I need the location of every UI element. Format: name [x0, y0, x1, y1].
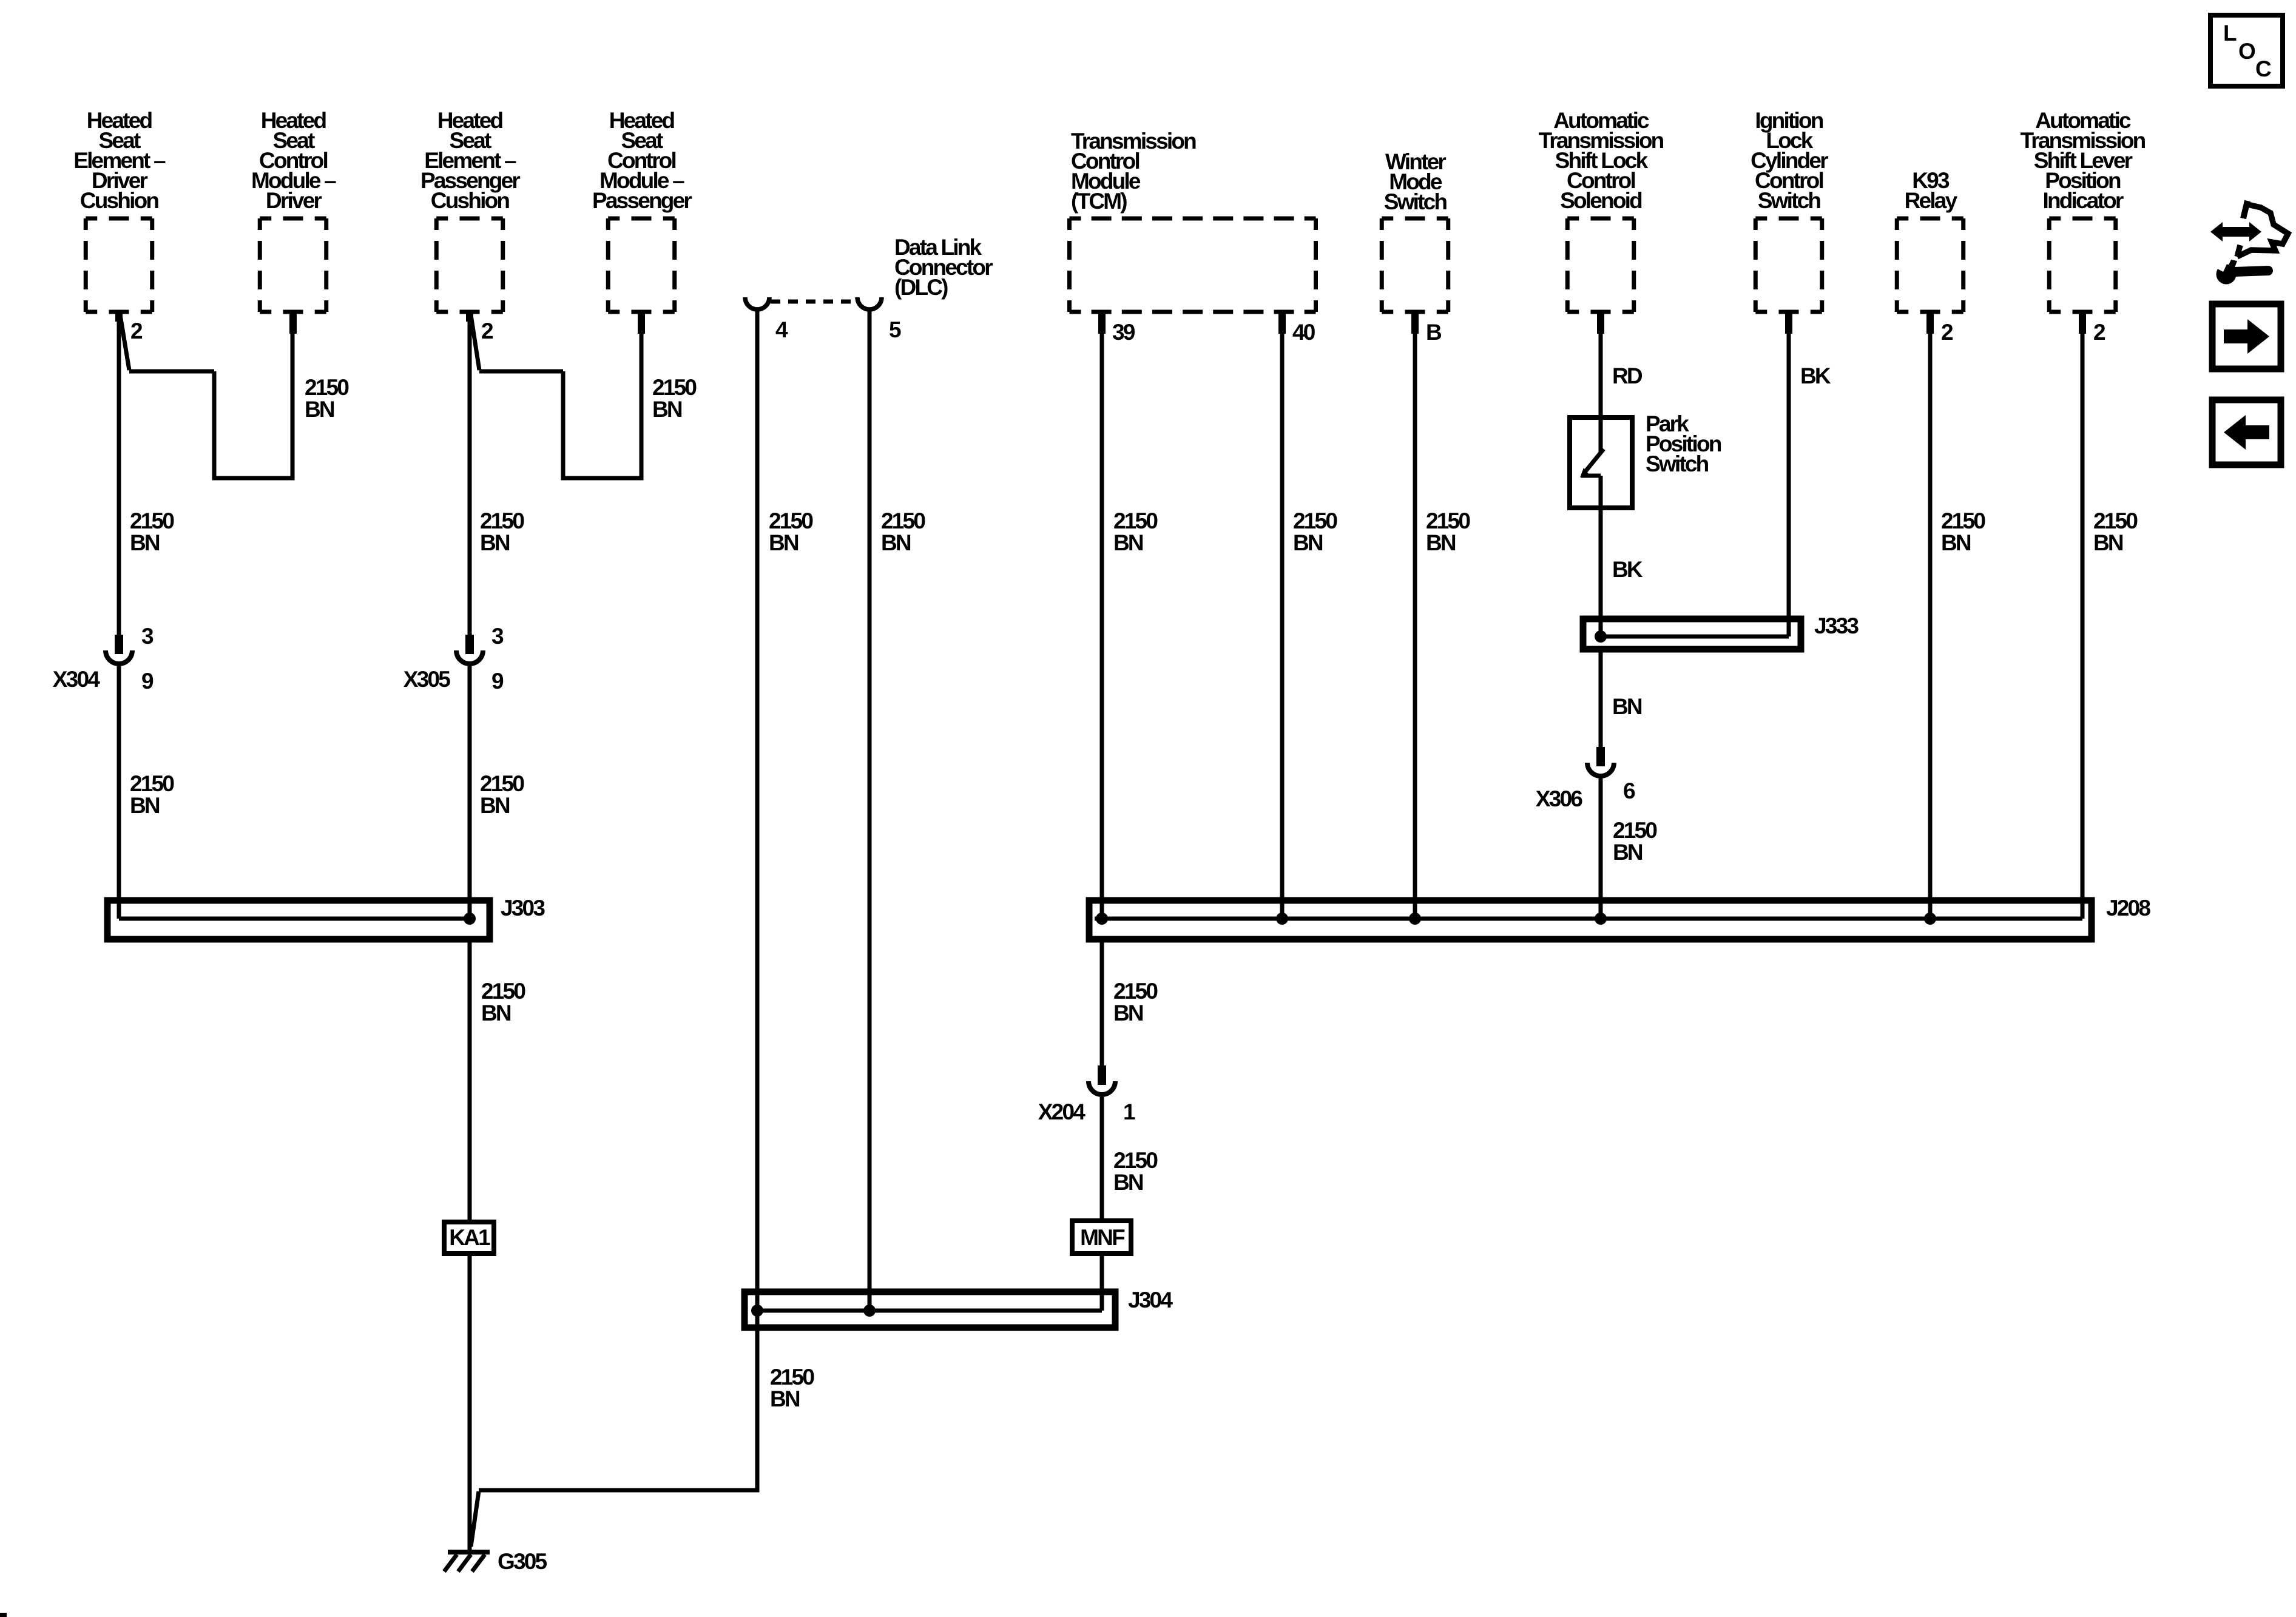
wire BN: J333 down to X306	[1599, 649, 1603, 747]
label: Park Position Switch	[1646, 411, 1721, 476]
svg-text:2150: 2150	[480, 508, 524, 533]
wire 2150 BN: TCM pin 39 down to splice J208	[1100, 312, 1104, 919]
pin 3 label (X305)	[491, 624, 504, 649]
svg-text:BN: BN	[305, 397, 334, 422]
svg-text:X306: X306	[1536, 786, 1582, 811]
svg-text:2150: 2150	[652, 375, 697, 400]
junction dot J208 at Winter Mode Switch wire	[1409, 913, 1421, 925]
bus wire inside J208	[1095, 917, 2082, 921]
relay box KA1	[444, 1222, 494, 1254]
svg-text:Solenoid: Solenoid	[1560, 188, 1642, 213]
wire 2150 BN: DLC pin 4 down to splice J304	[755, 309, 760, 1311]
svg-text:J208: J208	[2106, 896, 2150, 920]
connector: Data Link Connector (DLC) cavity 4	[745, 297, 769, 309]
svg-text:2150: 2150	[480, 771, 524, 796]
wire label 2150 BN (passenger element, upper)	[480, 508, 524, 555]
svg-text:BN: BN	[1426, 530, 1456, 555]
junction dot on J303 at X305 wire	[464, 913, 476, 925]
svg-text:J333: J333	[1814, 613, 1859, 638]
wire 2150 BN: X305 down through J303	[468, 666, 472, 919]
svg-text:MNF: MNF	[1080, 1225, 1125, 1250]
svg-text:J304: J304	[1128, 1288, 1173, 1312]
wire label 2150 BN (driver element, lower)	[130, 771, 174, 818]
svg-text:2150: 2150	[1941, 508, 1985, 533]
wire: branch from passenger element pin 2 (slant)	[471, 315, 479, 370]
svg-text:BN: BN	[769, 530, 799, 555]
connector X306 inline	[1587, 747, 1614, 776]
wire 2150 BN: Shift Lever Position Indicator down to J208	[2081, 312, 2085, 919]
wire label 2150 BN (passenger control module)	[652, 375, 697, 422]
junction dot J304 at DLC5 wire	[863, 1305, 876, 1317]
pin 4 label (DLC)	[775, 317, 788, 342]
pin 40 label (TCM)	[1292, 320, 1315, 345]
svg-text:2150: 2150	[481, 979, 525, 1004]
wire label 2150 BN (DLC pin 5, upper)	[881, 508, 925, 555]
wire 2150 BN: X306 down to J208	[1599, 778, 1603, 919]
svg-text:9: 9	[491, 669, 504, 694]
svg-text:BN: BN	[480, 530, 510, 555]
component box: Ignition Lock Cylinder Control Switch	[1755, 218, 1822, 312]
pin B stub (Winter Mode Switch)	[1411, 312, 1419, 334]
ground G305 symbol	[444, 1550, 490, 1571]
pin stub (Ignition Lock Cylinder Control Switch)	[1785, 312, 1792, 334]
svg-text:3: 3	[141, 624, 154, 649]
svg-text:2150: 2150	[770, 1365, 814, 1389]
junction dot J208 at solenoid chain wire	[1595, 913, 1607, 925]
svg-text:X204: X204	[1038, 1099, 1086, 1124]
wire BK: ignition switch down to J333	[1787, 312, 1791, 636]
wire label 2150 BN (K93)	[1941, 508, 1985, 555]
svg-text:Passenger: Passenger	[592, 188, 692, 213]
svg-text:Switch: Switch	[1646, 451, 1709, 476]
svg-text:BN: BN	[652, 397, 682, 422]
wire 2150 BN: X304 down to splice J303	[117, 666, 121, 919]
label: Heated Seat Control Module - Passenger	[592, 108, 692, 213]
svg-text:3: 3	[491, 624, 504, 649]
icon: forward arrow box	[2212, 304, 2281, 369]
svg-text:BN: BN	[1293, 530, 1323, 555]
wire 2150 BN: driver control module down to branch	[291, 312, 295, 481]
wire label 2150 BN (below J208)	[1113, 979, 1158, 1025]
svg-text:(TCM): (TCM)	[1071, 189, 1127, 214]
svg-text:2: 2	[481, 319, 493, 343]
svg-text:2: 2	[2093, 320, 2105, 345]
wire label 2150 BN (TCM 40)	[1293, 508, 1337, 555]
component box: Transmission Control Module (TCM)	[1070, 218, 1316, 312]
svg-text:L: L	[2223, 21, 2237, 46]
wire label 2150 BN (TCM 39, upper)	[1113, 508, 1158, 555]
wire: vertical segment x=353 driver branch	[212, 371, 217, 478]
component box: relay K93	[1897, 218, 1963, 312]
splice pack J303	[107, 900, 490, 939]
svg-text:C: C	[2255, 56, 2271, 81]
wire RD: solenoid down to Park Position Switch	[1599, 312, 1603, 417]
label: Ignition Lock Cylinder Control Switch	[1751, 108, 1828, 213]
svg-text:BN: BN	[480, 793, 510, 818]
svg-text:BN: BN	[1113, 1001, 1143, 1025]
svg-text:BN: BN	[1113, 1170, 1143, 1195]
svg-text:6: 6	[1623, 778, 1635, 803]
wire 2150 BN: TCM pin 40 down to splice J208	[1280, 312, 1285, 919]
svg-text:BN: BN	[1113, 530, 1143, 555]
svg-text:2150: 2150	[1293, 508, 1337, 533]
svg-text:2150: 2150	[1113, 1148, 1158, 1173]
pin 40 stub (TCM)	[1278, 312, 1286, 334]
label: Winter Mode Switch	[1384, 149, 1447, 214]
svg-text:2150: 2150	[2093, 508, 2138, 533]
wire BK: park switch lower contact down through box	[1599, 476, 1603, 636]
pin 39 stub (TCM)	[1098, 312, 1106, 334]
wire label BK (ignition switch)	[1800, 363, 1831, 388]
svg-text:BN: BN	[881, 530, 911, 555]
wire: driver element pin 2 down to X304	[117, 312, 121, 636]
label MNF	[1080, 1225, 1125, 1250]
wire label 2150 BN (driver element, upper)	[130, 508, 174, 555]
pin 1 label (X204)	[1123, 1099, 1135, 1124]
svg-text:BN: BN	[1613, 840, 1643, 865]
pin 9 label (X305)	[491, 669, 504, 694]
label KA1	[449, 1225, 490, 1250]
label: Data Link Connector (DLC)	[894, 235, 993, 300]
pin stub (Shift Lock Control Solenoid)	[1597, 312, 1604, 334]
pin 9 label (X304)	[141, 669, 154, 694]
pin 2 label (Shift Lever Position Indicator)	[2093, 320, 2105, 345]
svg-text:X305: X305	[403, 667, 450, 692]
svg-text:BN: BN	[130, 793, 160, 818]
wire: slant segment joining ground point	[471, 1491, 479, 1547]
svg-text:39: 39	[1112, 320, 1135, 345]
page corner mark	[0, 1613, 7, 1617]
label: K93 Relay	[1905, 168, 1958, 213]
component box: Heated Seat Element - Driver Cushion	[86, 218, 152, 312]
wire label 2150 BN (driver control module)	[305, 375, 349, 422]
junction dot J208 at TCM 39 wire	[1096, 913, 1108, 925]
wire: KA1 down to ground G305	[468, 1254, 472, 1551]
svg-text:2: 2	[130, 319, 143, 343]
icon: adjustment symbol (wrench)	[2214, 260, 2268, 285]
pin 5 label (DLC)	[889, 317, 901, 342]
pin 2 stub (K93 relay)	[1926, 312, 1934, 334]
label: Heated Seat Element - Passenger Cushion	[420, 108, 520, 213]
wire 2150 BN: Winter Mode Switch down to J208	[1413, 312, 1417, 919]
svg-text:B: B	[1426, 320, 1442, 345]
bus wire inside J333	[1601, 635, 1789, 639]
bus wire inside J304	[757, 1309, 1102, 1313]
svg-text:BN: BN	[1612, 694, 1642, 719]
junction dot J208 at TCM 40 wire	[1276, 913, 1288, 925]
svg-text:G305: G305	[498, 1549, 547, 1574]
label G305	[498, 1549, 547, 1574]
svg-text:2150: 2150	[305, 375, 349, 400]
pin 2 label (Heated Seat Element - Passenger Cushion)	[481, 319, 493, 343]
svg-text:2150: 2150	[130, 508, 174, 533]
switch S1: Park Position Switch box	[1570, 417, 1632, 508]
connector label X306	[1536, 786, 1582, 811]
connector label X204	[1038, 1099, 1086, 1124]
svg-text:9: 9	[141, 669, 154, 694]
component box: Winter Mode Switch	[1382, 218, 1448, 312]
svg-text:Cushion: Cushion	[80, 188, 159, 213]
component box: Heated Seat Element - Passenger Cushion	[436, 218, 503, 312]
fuse box MNF	[1072, 1221, 1131, 1254]
svg-text:BK: BK	[1612, 557, 1643, 582]
wire: horizontal segment y=788 passenger branch	[561, 476, 642, 481]
wire: horizontal segment y=612 passenger branch	[479, 370, 563, 374]
svg-text:BN: BN	[1941, 530, 1971, 555]
legend box LOC	[2210, 15, 2283, 86]
label: Automatic Transmission Shift Lock Control Solenoid	[1539, 108, 1664, 213]
wire 2150 BN: passenger control module down to branch	[640, 312, 644, 481]
svg-text:2150: 2150	[1113, 979, 1158, 1004]
label J303	[501, 896, 545, 920]
label: Automatic Transmission Shift Lever Position Indicator	[2021, 108, 2146, 213]
wire 2150 BN: X204 down to fuse MNF	[1100, 1097, 1104, 1221]
svg-text:Switch: Switch	[1384, 189, 1447, 214]
splice pack J208	[1089, 900, 2092, 939]
splice pack J333	[1583, 619, 1801, 649]
svg-text:Cushion: Cushion	[431, 188, 510, 213]
svg-text:2150: 2150	[130, 771, 174, 796]
svg-text:Relay: Relay	[1905, 188, 1958, 213]
splice pack J304	[745, 1292, 1115, 1328]
connector label X305	[403, 667, 450, 692]
svg-text:O: O	[2238, 39, 2255, 64]
pin stub: Heated Seat Control Module - Driver	[289, 312, 297, 334]
connector X304 inline	[106, 635, 132, 664]
bus wire inside J303	[119, 917, 470, 921]
icon: back arrow box	[2212, 400, 2281, 465]
svg-text:1: 1	[1123, 1099, 1135, 1124]
connector label X304	[53, 667, 100, 692]
pin 2 stub: Heated Seat Element - Driver Cushion	[115, 312, 123, 322]
wire: passenger element pin 2 down to X305	[468, 312, 472, 636]
label J208	[2106, 896, 2150, 920]
wire label 2150 BN (DLC pin 4, upper)	[769, 508, 813, 555]
component box: Heated Seat Control Module - Passenger	[608, 218, 675, 312]
wire: horizontal segment y=788 driver branch	[212, 476, 293, 481]
svg-text:X304: X304	[53, 667, 100, 692]
label: Transmission Control Module (TCM)	[1071, 129, 1196, 214]
icon: adjustment symbol (double arrow)	[2210, 222, 2261, 241]
svg-text:2: 2	[1941, 320, 1953, 345]
pin 2 label (K93 relay)	[1941, 320, 1953, 345]
svg-text:2150: 2150	[1113, 508, 1158, 533]
svg-text:2150: 2150	[1426, 508, 1470, 533]
wire: vertical segment x=928 passenger branch	[561, 371, 566, 478]
wire label BN	[1612, 694, 1642, 719]
wire: branch from driver element pin 2 toward control module (slant)	[120, 315, 129, 370]
svg-text:RD: RD	[1612, 363, 1643, 388]
svg-text:5: 5	[889, 317, 901, 342]
switch blade inside Park Position Switch	[1580, 417, 1604, 478]
component box: Automatic Transmission Shift Lock Control Solenoid	[1567, 218, 1634, 312]
svg-text:(DLC): (DLC)	[894, 275, 948, 300]
svg-text:KA1: KA1	[449, 1225, 490, 1250]
wire 2150 BN: DLC pin 5 down to splice J304	[868, 309, 872, 1311]
svg-text:BK: BK	[1800, 363, 1831, 388]
pin 2 stub: Heated Seat Element - Passenger Cushion	[466, 312, 473, 322]
wire 2150 BN: J208 down to X204	[1100, 939, 1104, 1065]
svg-text:2150: 2150	[1613, 818, 1657, 843]
connector X204 inline	[1089, 1065, 1115, 1095]
svg-text:BN: BN	[130, 530, 160, 555]
svg-text:Switch: Switch	[1758, 188, 1821, 213]
svg-text:40: 40	[1292, 320, 1315, 345]
wire label 2150 BN (DLC pin 4, below J304)	[770, 1365, 814, 1411]
label: Heated Seat Element - Driver Cushion	[73, 108, 166, 213]
wire: dashed link between DLC cavities 4 and 5	[771, 300, 856, 304]
wire 2150 BN: K93 relay down to J208	[1928, 312, 1933, 919]
svg-text:J303: J303	[501, 896, 545, 920]
pin 2 stub (Shift Lever Position Indicator)	[2079, 312, 2086, 334]
wire label 2150 BN (solenoid chain)	[1613, 818, 1657, 865]
wire 2150 BN: J303 down to relay KA1	[468, 939, 472, 1222]
svg-text:2150: 2150	[769, 508, 813, 533]
svg-text:Indicator: Indicator	[2042, 188, 2123, 213]
pin stub: Heated Seat Control Module - Passenger	[638, 312, 645, 334]
svg-text:Driver: Driver	[266, 188, 322, 213]
svg-text:BN: BN	[481, 1001, 511, 1025]
wire: DLC pin 4 wire continues below J304	[755, 1311, 760, 1490]
junction dot J208 at K93 wire	[1924, 913, 1936, 925]
connector: Data Link Connector (DLC) cavity 5	[857, 297, 882, 309]
pin 39 label (TCM)	[1112, 320, 1135, 345]
junction dot on J333 at solenoid wire	[1595, 630, 1607, 643]
junction dot J304 at DLC4 wire	[751, 1305, 763, 1317]
wire: horizontal run y=2456 toward ground	[479, 1488, 760, 1493]
connector X305 inline	[456, 635, 483, 664]
wire: MNF down into splice J304	[1100, 1254, 1104, 1311]
svg-text:BN: BN	[2093, 530, 2123, 555]
pin 6 label (X306)	[1623, 778, 1635, 803]
svg-text:BN: BN	[770, 1386, 800, 1411]
pin 3 label (X304)	[141, 624, 154, 649]
wire label 2150 BN (below J303)	[481, 979, 525, 1025]
pin B label (Winter Mode Switch)	[1426, 320, 1442, 345]
wire label 2150 BN (shift lever indicator)	[2093, 508, 2138, 555]
label: Heated Seat Control Module - Driver	[251, 108, 336, 213]
pin 2 label (Heated Seat Element - Driver Cushion)	[130, 319, 143, 343]
icon: adjustment symbol (bent outline)	[2237, 201, 2288, 257]
label J304	[1128, 1288, 1173, 1312]
component box: Heated Seat Control Module - Driver	[260, 218, 326, 312]
wire label RD	[1612, 363, 1643, 388]
wire: horizontal segment y=612 driver branch	[129, 370, 214, 374]
wire label 2150 BN (Winter Mode Switch)	[1426, 508, 1470, 555]
svg-text:2150: 2150	[881, 508, 925, 533]
label J333	[1814, 613, 1859, 638]
wire label 2150 BN (passenger element, lower)	[480, 771, 524, 818]
wire label BK (below park switch)	[1612, 557, 1643, 582]
wire label 2150 BN (below X204)	[1113, 1148, 1158, 1195]
component box: Automatic Transmission Shift Lever Position Indicator	[2049, 218, 2116, 312]
